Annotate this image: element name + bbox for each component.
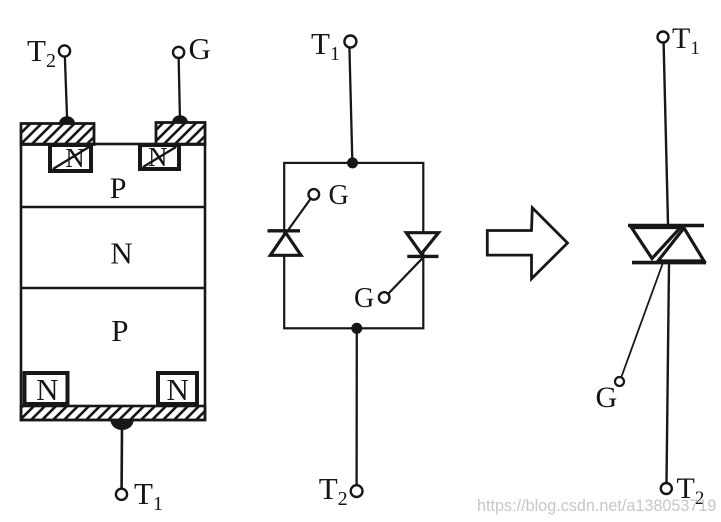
terminal circle G (cross-section) <box>173 47 184 58</box>
node junction dot (top) <box>347 157 358 168</box>
triac cross-section body outline <box>21 144 205 420</box>
svg-text:N: N <box>36 372 58 407</box>
svg-text:G: G <box>329 180 349 211</box>
T1 contact dome <box>111 420 134 430</box>
gate lead of V2 <box>388 258 423 294</box>
svg-text:G: G <box>596 381 618 414</box>
wire T1 lead (triac symbol) <box>664 43 668 225</box>
T2 contact dome <box>59 116 75 123</box>
terminal circle T2 (triac symbol) <box>661 483 672 494</box>
wire T2 lead (equivalent circuit) <box>355 330 357 485</box>
thyristor V2 triangle (right SCR, conducts downward) <box>406 233 438 254</box>
G contact dome <box>172 115 188 122</box>
svg-text:G: G <box>189 31 211 66</box>
svg-text:T1: T1 <box>672 22 700 59</box>
gate lead of V1 <box>289 198 312 230</box>
equivalent-circuit loop wire (rectangle) <box>284 163 423 328</box>
svg-text:T2: T2 <box>319 471 348 510</box>
terminal circle T1 (cross-section) <box>116 489 127 500</box>
svg-text:N: N <box>65 143 85 173</box>
triac symbol top bar <box>628 224 704 228</box>
gate terminal circle of V1 <box>309 189 320 200</box>
triac symbol bottom bar <box>632 261 706 265</box>
thyristor V2 cathode bar (right SCR) <box>407 255 438 258</box>
svg-text:G: G <box>354 283 374 314</box>
wire T1 lead (equivalent circuit) <box>349 47 352 160</box>
gate lead (triac symbol) <box>621 264 663 378</box>
svg-text:T1: T1 <box>134 476 163 515</box>
bottom-left N+ region box <box>25 373 68 404</box>
terminal circle T2 (cross-section) <box>59 45 70 56</box>
svg-text:P: P <box>111 313 128 348</box>
wire T2 lead <box>65 55 67 122</box>
svg-text:N: N <box>148 142 168 172</box>
bottom-right N+ region box <box>158 373 197 404</box>
top-right metal electrode (G contact, hatched) <box>156 123 205 145</box>
wire G lead <box>179 56 180 121</box>
wire T2 lead (triac symbol) <box>667 264 670 483</box>
hatch line in right top N box <box>143 147 176 167</box>
svg-text:N: N <box>167 372 189 407</box>
hatch line in left top N box <box>53 147 89 169</box>
gate terminal circle (triac symbol) <box>615 377 624 386</box>
N+ region box under G electrode <box>140 145 179 169</box>
bottom metal electrode (T1 contact, hatched strip) <box>21 406 205 420</box>
svg-text:P: P <box>110 172 127 205</box>
svg-text:T1: T1 <box>311 26 340 65</box>
N+ region box under T2 electrode <box>50 145 91 171</box>
terminal circle T1 (equivalent circuit) <box>344 36 356 48</box>
svg-text:T2: T2 <box>27 33 56 72</box>
thyristor V1 cathode bar (left SCR) <box>268 229 301 232</box>
node junction dot (bottom) <box>351 323 362 334</box>
gate terminal circle of V2 <box>379 292 390 303</box>
junction line J2 (N/P boundary) <box>21 287 205 289</box>
junction line J1 (P/N boundary) <box>21 206 205 208</box>
wire T1 lead <box>120 428 123 488</box>
svg-text:https://blog.csdn.net/a1380537: https://blog.csdn.net/a138053719 <box>477 497 716 515</box>
thyristor V1 triangle (left SCR, conducts upward) <box>270 233 301 256</box>
svg-text:N: N <box>110 236 132 271</box>
terminal circle T2 (equivalent circuit) <box>351 485 363 497</box>
top-left metal electrode (T2 contact, hatched) <box>21 124 94 145</box>
terminal circle T1 (triac symbol) <box>658 32 669 43</box>
triac symbol right triangle (pointing up) <box>658 228 704 261</box>
equivalence block arrow <box>487 208 567 279</box>
triac symbol left triangle (pointing down) <box>632 228 681 259</box>
